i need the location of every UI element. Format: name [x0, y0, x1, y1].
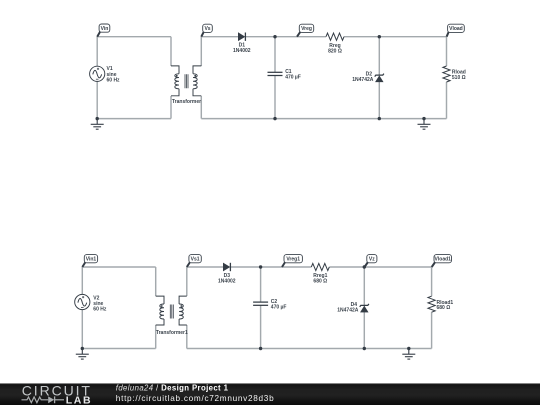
node junction ground1 left	[81, 347, 84, 350]
svg-text:LAB: LAB	[66, 395, 92, 405]
footer bar	[0, 383, 540, 405]
voltage source V1	[90, 66, 120, 83]
svg-text:510 Ω: 510 Ω	[452, 75, 466, 81]
node junction C2 bottom	[259, 347, 262, 350]
node Vz	[365, 255, 377, 267]
logo diode	[48, 396, 64, 403]
wire C2 bottom lead	[260, 305, 262, 348]
logo wordmark LAB	[66, 395, 92, 405]
wire Rreg to Vload	[344, 36, 447, 38]
wire D3 to Rreg1	[230, 266, 311, 268]
ground bottom-right	[402, 349, 415, 360]
svg-text:1N4742A: 1N4742A	[337, 308, 359, 314]
footer url line	[116, 394, 275, 403]
wire D1 to Rreg	[245, 36, 326, 38]
wire transformer1 secondary bottom lead	[186, 325, 188, 349]
svg-text:60 Hz: 60 Hz	[107, 78, 121, 84]
node Vin1	[82, 255, 97, 267]
svg-text:680 Ω: 680 Ω	[313, 279, 327, 285]
ground bottom-left	[76, 349, 89, 360]
svg-text:Vin: Vin	[101, 26, 109, 32]
node junction D2 top	[378, 35, 381, 38]
svg-text:fdeluna24 / Design Project 1: fdeluna24 / Design Project 1	[116, 383, 229, 392]
svg-text:1N4002: 1N4002	[218, 278, 236, 284]
svg-text:470 µF: 470 µF	[271, 304, 287, 310]
wire C2 top lead	[260, 267, 262, 302]
logo resistor zigzag	[22, 397, 49, 403]
wire primary bottom	[97, 118, 171, 120]
resistor Rreg	[326, 33, 344, 54]
diode D3	[218, 263, 236, 285]
node Vs	[201, 24, 212, 37]
wire primary1 bottom	[82, 348, 155, 350]
svg-text:1N4742A: 1N4742A	[352, 77, 374, 83]
wire D4 bottom lead	[363, 312, 365, 348]
wire Rreg1 to Vload1	[329, 266, 431, 268]
node Vload	[447, 24, 465, 37]
ground top-right	[418, 119, 431, 130]
node Vreg	[297, 24, 314, 37]
svg-text:Transformer: Transformer	[172, 99, 201, 105]
wire transformer1 primary bottom lead	[155, 325, 157, 349]
CircuitLab logo wordmark CIRCUIT	[22, 383, 92, 399]
node junction ground right	[422, 117, 425, 120]
zener diode D2	[352, 72, 384, 84]
wire transformer secondary bottom lead	[200, 96, 202, 119]
resistor Rreg1	[311, 263, 329, 284]
svg-text:Vs: Vs	[204, 26, 210, 32]
svg-text:1N4002: 1N4002	[233, 48, 251, 54]
wire primary left upper	[96, 37, 98, 67]
node Vs1	[187, 255, 201, 267]
wire transformer primary top lead	[170, 37, 172, 66]
ground top-left	[91, 119, 104, 130]
node junction D4 bottom	[363, 347, 366, 350]
wire secondary bottom rail	[201, 118, 446, 120]
wire Rload bottom lead	[446, 82, 448, 119]
wire D2 top lead	[378, 37, 380, 75]
svg-text:Vload1: Vload1	[435, 257, 452, 263]
wire transformer secondary top lead	[200, 37, 202, 66]
capacitor C1	[268, 69, 301, 80]
resistor Rload1	[428, 296, 453, 312]
wire Rload top lead	[446, 37, 448, 66]
wire transformer1 secondary top lead	[186, 267, 188, 296]
wire C1 bottom lead	[274, 76, 276, 119]
node junction C1 bottom	[273, 117, 276, 120]
node junction D2 bottom	[378, 117, 381, 120]
node junction ground1 right	[407, 347, 410, 350]
wire Vs1 to D3	[187, 266, 224, 268]
zener diode D4	[337, 302, 369, 314]
svg-text:Transformer1: Transformer1	[156, 330, 188, 336]
voltage source V2	[75, 294, 107, 312]
svg-text:Vin1: Vin1	[86, 257, 97, 263]
node junction ground left	[96, 117, 99, 120]
wire Vin top	[97, 36, 171, 38]
node Vin	[97, 24, 110, 37]
svg-text:Vreg1: Vreg1	[286, 257, 300, 263]
wire Rload1 top lead	[431, 267, 433, 296]
node junction C1 top	[273, 35, 276, 38]
wire C1 top lead	[274, 37, 276, 73]
wire transformer1 primary top lead	[155, 267, 157, 296]
wire primary left lower	[96, 81, 98, 118]
wire Vin1 top	[82, 266, 155, 268]
node Vload1	[432, 255, 452, 267]
transformer Transformer1	[156, 296, 188, 336]
wire secondary1 bottom rail	[187, 348, 432, 350]
svg-text:Vload: Vload	[449, 26, 463, 32]
footer author / title line	[116, 383, 229, 392]
svg-text:470 µF: 470 µF	[285, 75, 301, 81]
diode D1	[233, 33, 251, 55]
svg-text:Vz: Vz	[369, 257, 375, 263]
capacitor C2	[253, 299, 286, 310]
wire Vs to D1	[201, 36, 238, 38]
wire D4 top lead	[363, 267, 365, 305]
wire primary1 left lower	[81, 310, 83, 349]
svg-text:Vreg: Vreg	[301, 26, 312, 32]
node Vreg1	[282, 255, 302, 267]
wire Rload1 bottom lead	[431, 312, 433, 348]
wire primary1 left upper	[81, 267, 83, 295]
node junction D4 top	[363, 265, 366, 268]
svg-text:http://circuitlab.com/c72mnunv: http://circuitlab.com/c72mnunv28d3b	[116, 394, 275, 403]
svg-text:820 Ω: 820 Ω	[328, 48, 342, 54]
node junction C2 top	[259, 265, 262, 268]
wire D2 bottom lead	[378, 82, 380, 119]
transformer Transformer	[171, 66, 201, 105]
wire transformer primary bottom lead	[170, 96, 172, 119]
svg-text:Vs1: Vs1	[191, 257, 200, 263]
svg-text:60 Hz: 60 Hz	[93, 307, 107, 313]
resistor Rload	[443, 66, 466, 82]
svg-text:680 Ω: 680 Ω	[437, 305, 451, 311]
